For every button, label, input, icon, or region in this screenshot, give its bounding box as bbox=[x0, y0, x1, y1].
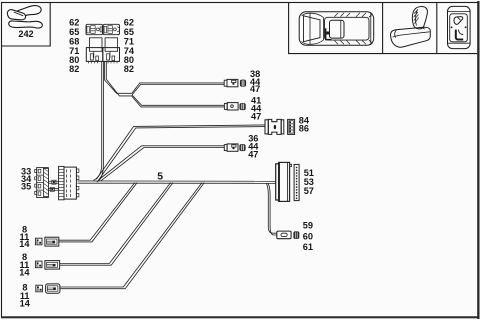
svg-text:47: 47 bbox=[248, 150, 258, 160]
svg-text:82: 82 bbox=[69, 64, 79, 74]
svg-text:14: 14 bbox=[19, 267, 30, 277]
svg-text:60: 60 bbox=[303, 231, 313, 241]
svg-text:14: 14 bbox=[20, 298, 31, 308]
svg-text:61: 61 bbox=[303, 242, 313, 252]
svg-text:59: 59 bbox=[303, 221, 313, 231]
svg-text:82: 82 bbox=[124, 64, 134, 74]
svg-text:86: 86 bbox=[299, 123, 309, 133]
svg-text:35: 35 bbox=[21, 182, 31, 192]
svg-text:14: 14 bbox=[19, 239, 30, 249]
svg-text:47: 47 bbox=[251, 111, 261, 121]
svg-text:242: 242 bbox=[18, 29, 33, 39]
svg-text:57: 57 bbox=[304, 186, 314, 196]
svg-text:5: 5 bbox=[157, 172, 163, 183]
svg-text:47: 47 bbox=[250, 84, 260, 94]
